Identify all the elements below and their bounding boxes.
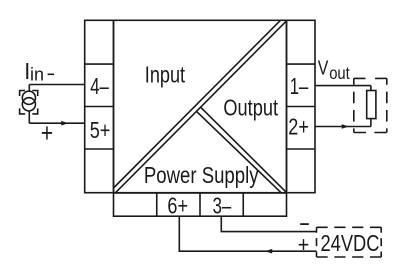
svg-text:6+: 6+ bbox=[167, 192, 188, 218]
svg-text:4–: 4– bbox=[90, 73, 109, 99]
svg-text:V: V bbox=[318, 57, 329, 80]
svg-text:+: + bbox=[298, 232, 310, 257]
svg-text:Power Supply: Power Supply bbox=[144, 162, 259, 188]
svg-text:Output: Output bbox=[223, 94, 278, 120]
svg-text:24VDC: 24VDC bbox=[321, 230, 380, 256]
svg-text:3–: 3– bbox=[213, 192, 232, 218]
svg-text:out: out bbox=[329, 63, 350, 83]
svg-text:2+: 2+ bbox=[288, 114, 309, 140]
svg-text:Input: Input bbox=[145, 62, 186, 88]
svg-text:5+: 5+ bbox=[90, 117, 111, 143]
svg-text:in: in bbox=[30, 64, 44, 84]
svg-text:1–: 1– bbox=[290, 73, 309, 99]
svg-text:+: + bbox=[41, 118, 53, 148]
